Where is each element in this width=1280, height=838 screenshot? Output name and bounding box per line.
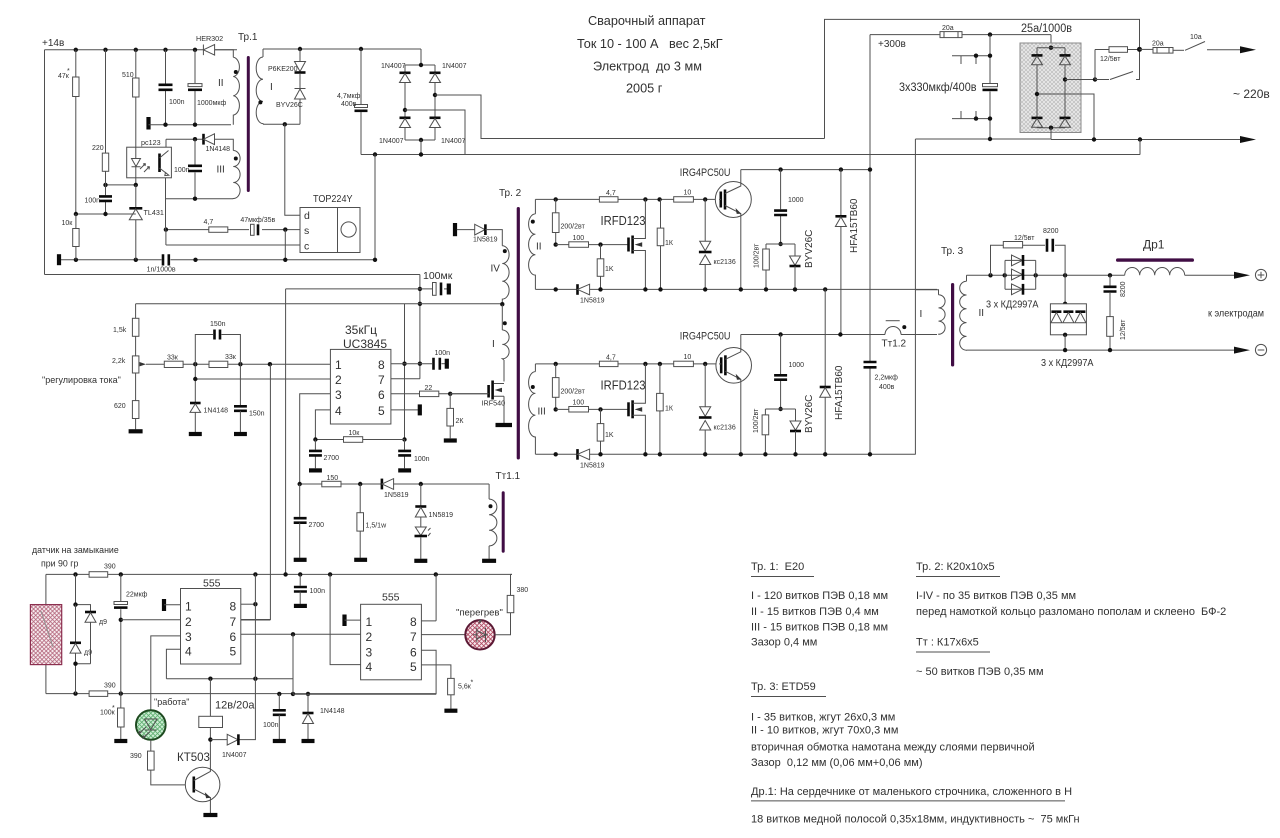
svg-text:22: 22 — [425, 385, 433, 392]
svg-text:1K: 1K — [605, 432, 614, 439]
svg-text:5: 5 — [410, 660, 417, 674]
svg-text:3: 3 — [185, 630, 192, 644]
capacitor 1000 (lower) — [780, 335, 782, 410]
node center tap — [500, 302, 504, 306]
svg-text:II - 15 витков ПЭВ 0,4 мм: II - 15 витков ПЭВ 0,4 мм — [751, 606, 879, 618]
wire top AC rail — [825, 19, 1140, 138]
svg-text:555: 555 — [203, 578, 221, 590]
svg-text:HFA15TB60: HFA15TB60 — [849, 198, 860, 253]
svg-text:33к: 33к — [225, 354, 237, 361]
wire pin4 loop — [166, 649, 293, 678]
svg-text:1n/1000в: 1n/1000в — [147, 267, 176, 274]
svg-text:20а: 20а — [1152, 41, 1164, 48]
svg-text:390: 390 — [130, 753, 142, 760]
wire x293 drop — [292, 634, 294, 694]
svg-text:+14в: +14в — [42, 38, 64, 49]
svg-text:1N4148: 1N4148 — [320, 708, 345, 715]
svg-text:I: I — [492, 339, 495, 350]
svg-text:1N5819: 1N5819 — [429, 512, 454, 519]
wire y139 from x915 — [915, 138, 1051, 140]
wire pin7 row — [391, 378, 420, 380]
capacitor 100n (bottom row) — [278, 694, 280, 709]
svg-text:III - 15 витков ПЭВ 0,18 мм: III - 15 витков ПЭВ 0,18 мм — [751, 622, 888, 634]
wire pin1 row — [146, 363, 330, 365]
svg-text:2700: 2700 — [309, 522, 325, 529]
svg-text:2005 г: 2005 г — [626, 82, 663, 96]
LED перегрев — [465, 620, 494, 649]
resistor 100 (upper) — [569, 242, 589, 248]
wire lower gate rail — [535, 363, 719, 365]
wire pc123 emitter down — [165, 178, 167, 230]
svg-text:Тр. 1: Е20: Тр. 1: Е20 — [751, 561, 804, 573]
diode 1N5819 (upper rail) — [576, 284, 579, 295]
node junction dots on +14 rail — [74, 48, 78, 52]
svg-text:pc123: pc123 — [141, 138, 161, 147]
resistor 1К (lower CE) — [659, 364, 661, 394]
node minus arrow — [1234, 347, 1250, 354]
wire +300в rail — [870, 35, 1051, 48]
svg-text:510: 510 — [122, 72, 134, 79]
svg-text:c: c — [304, 241, 309, 253]
capacitor 2700 (sense) — [299, 484, 301, 517]
transformer Tr.1 winding I (primary) — [256, 49, 263, 124]
wire upper snubber row — [766, 243, 795, 245]
ground — [57, 254, 61, 265]
svg-text:Сварочный аппарат: Сварочный аппарат — [588, 14, 706, 28]
svg-text:400в: 400в — [341, 101, 357, 108]
svg-text:2: 2 — [335, 373, 342, 387]
svg-text:8200: 8200 — [1120, 281, 1127, 297]
svg-text:4,7: 4,7 — [204, 219, 214, 226]
svg-text:12/5вт: 12/5вт — [1014, 235, 1035, 242]
svg-text:47мкф/35в: 47мкф/35в — [240, 217, 275, 224]
node DC blocking bar — [453, 223, 457, 236]
svg-text:кс2136: кс2136 — [714, 259, 736, 266]
svg-text:100мк: 100мк — [423, 270, 453, 282]
svg-text:2: 2 — [366, 630, 373, 644]
wire 555(2) pin6 loop — [293, 650, 436, 694]
capacitor 100n (pin8 RC) — [404, 440, 406, 469]
resistor 5,6к* — [448, 678, 455, 694]
thermal sensor box — [45, 574, 47, 693]
diode 1N4148 (comp) — [190, 402, 201, 405]
svg-text:20а: 20а — [942, 25, 954, 32]
svg-text:100: 100 — [573, 235, 585, 242]
svg-text:8200: 8200 — [1043, 228, 1059, 235]
svg-text:3: 3 — [335, 388, 342, 402]
svg-text:5: 5 — [378, 404, 385, 418]
svg-text:1N4007: 1N4007 — [441, 138, 466, 145]
transformer Tr.1 core — [247, 56, 250, 192]
svg-text:150n: 150n — [210, 321, 226, 328]
wire +14 feed corner — [419, 275, 421, 379]
svg-text:4: 4 — [335, 404, 342, 418]
wire LED cathode row — [106, 178, 136, 185]
resistor 390 (top) — [89, 572, 108, 578]
wire winding III top row — [166, 139, 233, 145]
svg-text:100n: 100n — [85, 198, 101, 205]
capacitor 1n/1000в — [163, 254, 169, 265]
svg-text:1: 1 — [185, 600, 192, 614]
wire lower snubber row — [765, 408, 795, 410]
resistor 200/2вт (upper) — [555, 199, 557, 212]
resistor 150 — [322, 481, 341, 487]
wire base — [151, 770, 193, 785]
wire pin7 link up — [241, 619, 271, 621]
svg-text:1N4148: 1N4148 — [204, 408, 229, 415]
wire +14в rail — [45, 49, 238, 51]
svg-text:1N5819: 1N5819 — [580, 463, 605, 470]
suppressor кс2136 (upper) — [704, 199, 706, 241]
svg-text:перед намоткой кольцо разломан: перед намоткой кольцо разломано пополам … — [916, 606, 1226, 618]
svg-text:18 витков медной полосой 0,35х: 18 витков медной полосой 0,35х18мм, инду… — [751, 814, 1080, 826]
svg-text:IRG4PC50U: IRG4PC50U — [680, 167, 731, 179]
svg-text:2,2мкф: 2,2мкф — [875, 375, 899, 382]
resistor 4,7 (upper) — [599, 197, 618, 202]
svg-text:5: 5 — [230, 645, 237, 659]
svg-text:380: 380 — [517, 587, 529, 594]
shunt regulator TL431 — [135, 185, 137, 208]
svg-text:IRFD123: IRFD123 — [601, 379, 646, 393]
diode group 3 х КД2997А (forward) — [1005, 260, 1036, 289]
resistor 10к — [75, 214, 77, 229]
resistor 2К — [449, 394, 451, 409]
svg-text:1К: 1К — [665, 406, 674, 413]
svg-text:1N5819: 1N5819 — [384, 492, 409, 499]
svg-text:Тр. 3: ETD59: Тр. 3: ETD59 — [751, 681, 816, 693]
wire drain drop — [285, 124, 300, 215]
svg-text:д9: д9 — [99, 619, 107, 626]
transient suppressor P6KE200 — [299, 49, 301, 61]
svg-text:I-IV - по 35 витков ПЭВ 0,35 м: I-IV - по 35 витков ПЭВ 0,35 мм — [916, 590, 1076, 602]
svg-text:4: 4 — [366, 660, 373, 674]
wire 555(2) pin7 to LED — [421, 634, 465, 636]
svg-text:1000: 1000 — [788, 197, 804, 204]
fuse 20а (mains) — [1140, 48, 1154, 50]
diode 1N5819 (IV) — [475, 224, 485, 235]
resistor 390 (bottom) — [89, 691, 108, 697]
node plus arrow — [1234, 272, 1250, 279]
svg-text:4,7мкф: 4,7мкф — [337, 93, 361, 100]
resistor 47к* — [75, 50, 77, 77]
wire bridge AC left-mid — [405, 110, 465, 155]
wire output minus rail — [967, 349, 1241, 351]
wire source drop — [374, 155, 376, 260]
capacitor 3х330мкф/400в — [988, 32, 992, 36]
wire pin2 row — [195, 378, 330, 380]
resistor 12/5вт (start) — [1095, 50, 1109, 80]
wire pin6 to 555(2) pin2 — [241, 633, 361, 635]
svg-text:IRG4PC50U: IRG4PC50U — [680, 331, 731, 343]
svg-text:TL431: TL431 — [144, 208, 164, 217]
svg-text:400в: 400в — [879, 384, 895, 391]
wire neutral branch down — [1139, 140, 1141, 155]
svg-text:150: 150 — [327, 475, 339, 482]
suppressor кс2136 (lower) — [704, 364, 706, 407]
svg-text:+300в: +300в — [878, 39, 906, 50]
svg-text:200/2вт: 200/2вт — [561, 224, 586, 231]
resistor 10 (lower) — [674, 361, 694, 366]
resistor 4,7 — [209, 227, 228, 232]
svg-text:3 х КД2997А: 3 х КД2997А — [986, 300, 1039, 311]
wire pin2 — [121, 619, 181, 621]
svg-text:~ 50 витков ПЭВ 0,35 мм: ~ 50 витков ПЭВ 0,35 мм — [916, 666, 1044, 678]
diode bridge top-left — [1032, 54, 1043, 57]
switch (start bypass) — [1095, 49, 1140, 79]
svg-text:390: 390 — [104, 683, 116, 690]
diode bridge bottom-right — [1060, 117, 1071, 120]
svg-text:"работа": "работа" — [154, 697, 189, 707]
svg-text:1N4007: 1N4007 — [381, 63, 406, 70]
resistor 1K (lower gate) — [600, 409, 602, 423]
capacitor 150n feedback — [195, 335, 240, 365]
resistor 620 — [135, 373, 137, 401]
bridge rectifier 1N4007 x4 — [405, 65, 435, 140]
resistor 510 — [135, 50, 137, 78]
svg-text:7: 7 — [410, 630, 417, 644]
svg-text:12/5вт: 12/5вт — [1120, 319, 1127, 340]
wire output plus rail — [967, 274, 1125, 276]
LED работа — [136, 710, 166, 740]
diode 1N5819 (lower rail) — [576, 449, 579, 460]
wire pin2 junction — [194, 364, 196, 402]
diode 1N4007 (relay) — [227, 734, 238, 745]
svg-text:Тт1.2: Тт1.2 — [882, 339, 907, 350]
transformer Tr.2 core — [517, 207, 520, 460]
svg-text:д9: д9 — [84, 650, 92, 657]
svg-text:10к: 10к — [349, 430, 361, 437]
svg-text:Тр. 2: К20х10х5: Тр. 2: К20х10х5 — [916, 561, 995, 573]
svg-text:к электродам: к электродам — [1208, 309, 1264, 320]
capacitor 47мкф/35в — [251, 224, 255, 235]
diode 1N5819 (sense) — [381, 479, 384, 490]
wire primary top rail — [263, 49, 421, 65]
timer 555 (2) — [361, 604, 422, 680]
node 555(2) pin1 NC bar — [342, 615, 346, 627]
svg-text:TOP224Y: TOP224Y — [313, 193, 353, 205]
diode HER302 — [203, 45, 220, 56]
node ~220в phase arrow — [1240, 46, 1256, 53]
diode 1N4007 top-left — [400, 72, 411, 75]
resistor 200/2вт (lower) — [555, 364, 557, 378]
transformer Tr.2 winding III — [529, 364, 536, 454]
wire c row — [166, 230, 300, 245]
svg-text:1,5k: 1,5k — [113, 327, 127, 334]
wire x255 vcc drop — [238, 574, 255, 739]
diode group 3 х КД2997А (freewheel) — [1064, 275, 1066, 304]
wire pin3 drop — [300, 394, 331, 484]
svg-text:1,5/1w: 1,5/1w — [366, 523, 388, 530]
resistor 1,5k — [135, 304, 137, 319]
svg-text:2К: 2К — [456, 418, 465, 425]
wire bottom row — [46, 693, 436, 695]
resistor 1K (upper gate) — [600, 245, 602, 259]
resistor 10 (upper) — [674, 197, 694, 202]
resistor 10к — [315, 439, 404, 441]
transformer Tr.3 winding I — [916, 290, 945, 335]
wire primary bottom — [263, 123, 300, 125]
wire pin3 to LED — [151, 636, 181, 710]
wire +14 drop x285.6 — [285, 289, 287, 575]
diode д9 (1) — [76, 574, 91, 611]
svg-text:390: 390 — [104, 564, 116, 571]
fuse 20а — [940, 32, 962, 38]
svg-text:2700: 2700 — [324, 455, 340, 462]
resistor 4,7 (lower) — [599, 361, 618, 366]
svg-text:Зазор 0,4 мм: Зазор 0,4 мм — [751, 637, 817, 649]
diode 1N5819 (clamp) — [420, 484, 422, 506]
timer 555 (1) — [181, 589, 241, 665]
svg-text:Тр. 2: Тр. 2 — [499, 188, 522, 199]
wire s branch to common — [284, 230, 286, 260]
svg-text:II: II — [979, 308, 985, 319]
svg-text:IRF540: IRF540 — [482, 399, 506, 408]
svg-text:8: 8 — [378, 358, 385, 372]
svg-text:I: I — [270, 82, 273, 93]
svg-text:100n: 100n — [310, 588, 326, 595]
diode BYV26C — [299, 74, 301, 88]
svg-text:BYV26C: BYV26C — [804, 230, 815, 268]
transformer Tr.1 winding II — [220, 50, 239, 125]
svg-text:1N5819: 1N5819 — [580, 298, 605, 305]
svg-text:2: 2 — [185, 615, 192, 629]
svg-text:4,7: 4,7 — [606, 355, 616, 362]
svg-text:BYV26C: BYV26C — [276, 102, 303, 109]
svg-text:UC3845: UC3845 — [343, 337, 387, 351]
resistor 100/2вт (lower) — [764, 409, 766, 415]
transformer Tr.2 winding II — [529, 199, 536, 289]
wire bridge AC2 out — [1037, 94, 1094, 140]
wire +300в drop — [869, 35, 871, 455]
wire secondary bottom rail — [149, 124, 232, 126]
switch 10а — [1185, 42, 1240, 51]
svg-text:вторичная обмотка намотана меж: вторичная обмотка намотана между слоями … — [751, 742, 1035, 754]
relay coil 12в/20а — [209, 679, 211, 717]
wire pin5 row + ground — [391, 409, 418, 411]
transformer Tr.1 winding III — [233, 145, 240, 199]
wire bridge bottom to cap — [420, 140, 422, 155]
capacitor 2700 (pin4) — [314, 440, 316, 469]
svg-text:1N5819: 1N5819 — [473, 237, 498, 244]
wire III bottom rail — [166, 198, 234, 200]
ground — [146, 117, 150, 130]
diode HFA15TB60 (lower freewheel) — [824, 289, 826, 386]
transformer Tr.3 winding II — [960, 275, 967, 350]
svg-text:Электрод до 3 мм: Электрод до 3 мм — [593, 60, 702, 74]
svg-text:кс2136: кс2136 — [714, 425, 736, 432]
svg-text:Тр. 3: Тр. 3 — [941, 246, 964, 257]
capacitor 100n (Tr.1 II snubber) — [165, 50, 167, 125]
svg-text:1N4148: 1N4148 — [206, 146, 231, 153]
svg-text:датчик на замыкание: датчик на замыкание — [32, 545, 119, 555]
svg-text:12/5вт: 12/5вт — [1100, 56, 1121, 63]
wire bottom +14 return rail — [45, 274, 420, 276]
MOSFET IRF540 — [494, 360, 504, 423]
wire pin1 long drop to 555 — [241, 364, 271, 619]
svg-text:II - 10 витков, жгут 70х0,3 мм: II - 10 витков, жгут 70х0,3 мм — [751, 725, 898, 737]
wire x404 Vref drop — [404, 304, 406, 440]
resistor 1,5/1w — [359, 484, 361, 513]
svg-text:10а: 10а — [1190, 34, 1202, 41]
resistor 33к (1) — [164, 361, 183, 367]
resistor 33к (2) — [209, 361, 228, 367]
diode 1N4148 (bottom row) — [307, 694, 309, 713]
svg-text:100n: 100n — [169, 99, 185, 106]
wire pin8 row — [391, 363, 432, 365]
wire 555(2) pin4 — [330, 574, 361, 664]
resistor 12/5вт (output) — [1107, 317, 1114, 337]
svg-text:7: 7 — [230, 615, 237, 629]
node minus terminal — [1255, 344, 1266, 355]
svg-text:III: III — [217, 165, 225, 176]
wire upper gate rail — [535, 198, 719, 200]
capacitor 100n (+row) — [299, 574, 301, 585]
svg-text:8: 8 — [410, 615, 417, 629]
svg-text:3: 3 — [366, 646, 373, 660]
svg-text:7: 7 — [378, 373, 385, 387]
wire to 1N5819 — [457, 229, 475, 231]
svg-text:8: 8 — [230, 600, 237, 614]
svg-text:Тр.1: Тр.1 — [238, 32, 258, 43]
svg-text:1000мкф: 1000мкф — [197, 100, 226, 107]
svg-text:Зазор 0,12 мм (0,06 мм+0,06 м: Зазор 0,12 мм (0,06 мм+0,06 мм) — [751, 757, 922, 769]
svg-text:Др.1: На сердечнике от маленьк: Др.1: На сердечнике от маленького строчн… — [751, 786, 1072, 798]
resistor 380 — [495, 613, 511, 635]
svg-text:"регулировка тока": "регулировка тока" — [42, 375, 121, 385]
svg-text:Тт : К17х6х5: Тт : К17х6х5 — [916, 637, 979, 649]
diode 1N4007 top-right — [430, 72, 441, 75]
svg-text:IRFD123: IRFD123 — [601, 214, 646, 228]
svg-text:33к: 33к — [167, 355, 179, 362]
svg-text:1N4007: 1N4007 — [379, 138, 404, 145]
resistor 1К (upper CE) — [660, 199, 662, 228]
node plus terminal — [1255, 269, 1266, 280]
svg-text:100n: 100n — [435, 350, 451, 357]
svg-text:150n: 150n — [249, 411, 265, 418]
optocoupler pc123 — [127, 147, 172, 178]
svg-text:II: II — [218, 78, 224, 89]
capacitor 1000мкф — [194, 50, 196, 125]
wire lower drive row — [554, 407, 558, 411]
bridge rectifier 25а/1000в — [1020, 43, 1081, 133]
diode bridge bottom-left — [1032, 117, 1043, 120]
capacitor 8200 (snubber) — [1023, 244, 1045, 246]
resistor 100/2вт (upper) — [765, 244, 767, 249]
diode bridge top-right — [1060, 54, 1071, 57]
transformer Tr.3 core — [951, 283, 954, 367]
wire bridge AC right-mid to +220 line — [435, 95, 825, 139]
wire neutral line — [1051, 139, 1240, 141]
transformer Tr.2 winding I — [502, 305, 509, 360]
capacitor 100n (III) — [194, 139, 196, 199]
resistor 100 (lower) — [569, 407, 589, 413]
resistor 100к* — [120, 694, 122, 708]
wire s row — [166, 229, 300, 231]
diode BYV26C (upper) — [794, 244, 796, 256]
svg-text:10к: 10к — [62, 220, 74, 227]
svg-text:6: 6 — [378, 388, 385, 402]
svg-text:1: 1 — [335, 358, 342, 372]
svg-text:22мкф: 22мкф — [126, 592, 148, 599]
svg-text:1000: 1000 — [789, 362, 805, 369]
svg-text:I - 35 витков, жгут 26х0,3 мм: I - 35 витков, жгут 26х0,3 мм — [751, 712, 895, 724]
wire pc123 LED feed — [135, 147, 137, 178]
wire upper drive row — [554, 242, 558, 246]
wire lower collector rail — [741, 334, 937, 336]
node neutral arrow — [1240, 136, 1256, 143]
svg-text:1: 1 — [366, 615, 373, 629]
IC UC3845 — [330, 349, 391, 424]
